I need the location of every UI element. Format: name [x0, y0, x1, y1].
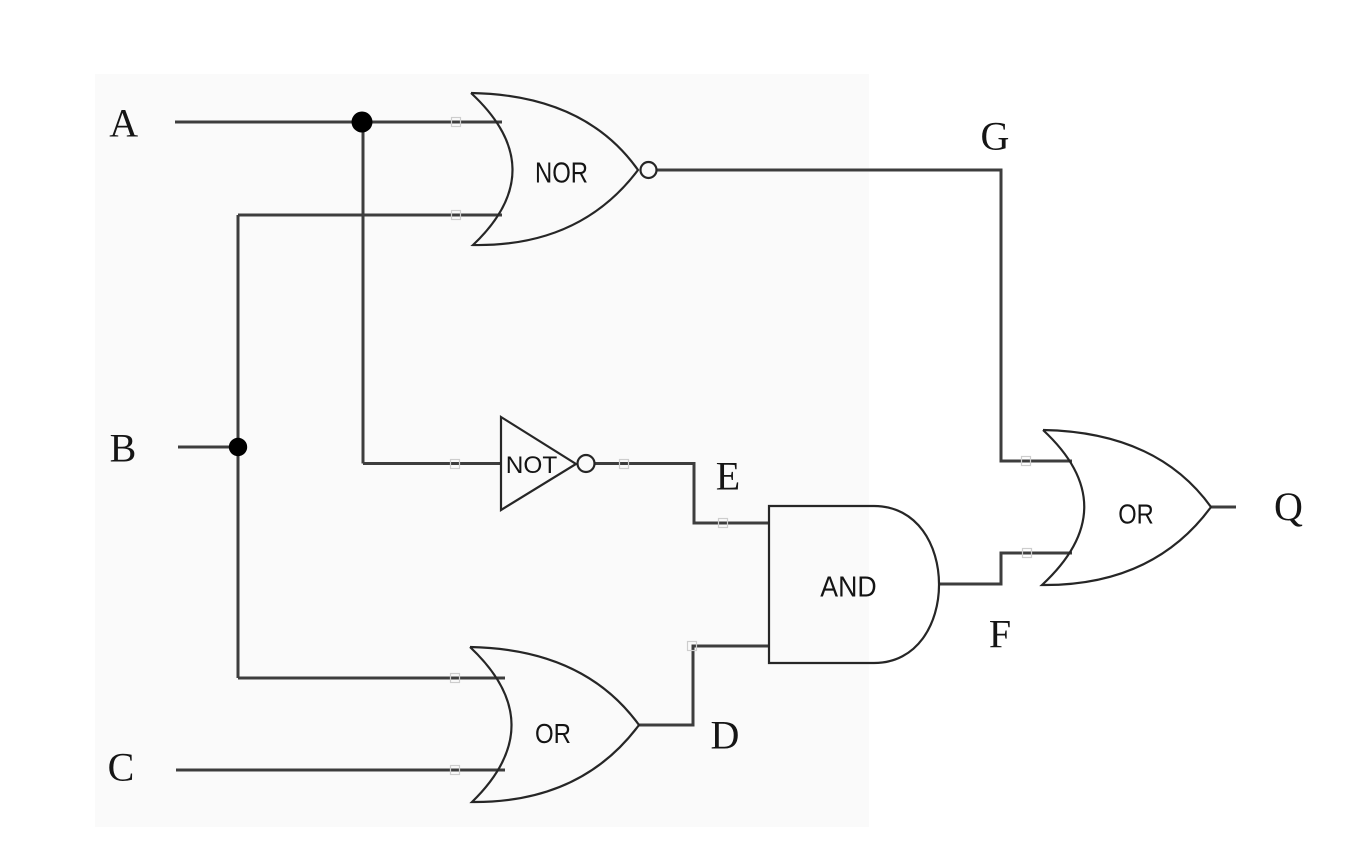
- AND gate U4 label: [820, 572, 876, 604]
- svg-text:E: E: [716, 454, 740, 499]
- wire B input stub: [178, 446, 238, 449]
- pin marker AND input 2: [688, 642, 697, 651]
- wire NOR output net G to OR2 top input: [657, 170, 1072, 461]
- wire OR1 output net D to AND bottom input: [639, 646, 769, 725]
- junction node on B wire: [229, 438, 247, 456]
- wire from node on A down to NOT input: [363, 122, 501, 464]
- canvas background panel: [95, 74, 869, 827]
- OR gate U3 body: [470, 647, 639, 802]
- net label E: [716, 454, 740, 499]
- NOT gate U2 body: [501, 417, 576, 510]
- output label Q: [1274, 484, 1303, 529]
- pin marker OR2 input 1: [1022, 457, 1031, 466]
- wire AND output net F to OR2 bottom input: [939, 553, 1072, 584]
- pin marker NOT input: [451, 460, 460, 469]
- wire B to NOR bottom input: [238, 214, 502, 217]
- net label F: [989, 612, 1011, 657]
- svg-text:NOT: NOT: [506, 452, 558, 479]
- svg-text:A: A: [109, 100, 138, 145]
- wire A input to NOR top input: [175, 121, 502, 124]
- wire B vertical bus: [237, 215, 240, 678]
- pin marker OR1 input 2: [451, 766, 460, 775]
- wire NOT output net E to AND top input: [595, 464, 769, 524]
- NOT gate U2 output bubble: [578, 455, 595, 472]
- pin marker OR1 input 1: [451, 674, 460, 683]
- svg-text:OR: OR: [1118, 498, 1154, 529]
- net label G: [981, 114, 1010, 159]
- svg-text:C: C: [108, 745, 135, 790]
- svg-text:D: D: [711, 713, 740, 758]
- NOR gate U1 label: [535, 158, 588, 190]
- input label C: [108, 745, 135, 790]
- wire C input to OR1 bottom input: [176, 769, 505, 772]
- svg-text:Q: Q: [1274, 484, 1303, 529]
- NOR gate U1 output bubble: [641, 162, 657, 178]
- wire B to OR1 top input: [238, 677, 505, 680]
- OR gate U5 body: [1042, 430, 1211, 585]
- NOR gate U1 body: [471, 93, 638, 245]
- svg-text:OR: OR: [535, 718, 571, 749]
- pin marker OR2 input 2: [1023, 549, 1032, 558]
- svg-text:AND: AND: [820, 572, 876, 604]
- wire OR2 output net Q: [1211, 506, 1236, 509]
- input label B: [110, 425, 137, 470]
- svg-text:G: G: [981, 114, 1010, 159]
- input label A: [109, 100, 138, 145]
- NOT gate U2 label: [506, 452, 558, 479]
- AND gate U4 body: [769, 506, 939, 663]
- junction node on A wire: [352, 112, 373, 133]
- pin marker NOT output: [620, 460, 629, 469]
- OR gate U5 label: [1118, 498, 1154, 529]
- net label D: [711, 713, 740, 758]
- svg-text:F: F: [989, 612, 1011, 657]
- pin marker NOR input 1: [452, 118, 461, 127]
- OR gate U3 label: [535, 718, 571, 749]
- pin marker AND input 1: [719, 519, 728, 528]
- svg-text:NOR: NOR: [535, 158, 588, 190]
- pin marker NOR input 2: [452, 211, 461, 220]
- svg-text:B: B: [110, 425, 137, 470]
